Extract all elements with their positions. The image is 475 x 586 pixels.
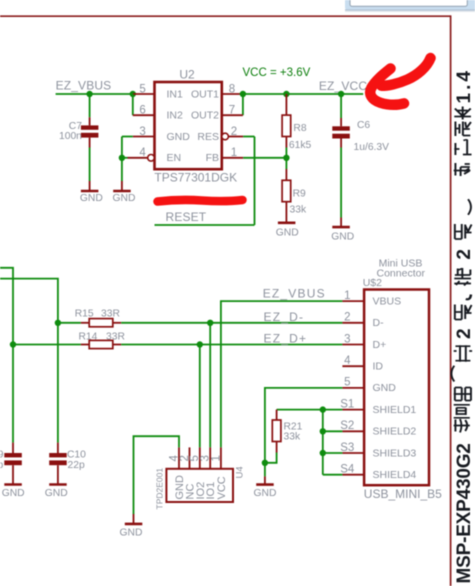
svg-text:S3: S3 bbox=[340, 442, 354, 454]
label C7 bbox=[69, 121, 82, 132]
label C6 bbox=[357, 120, 370, 131]
pin 3 stub bbox=[342, 344, 364, 346]
label 22p bbox=[68, 460, 85, 471]
label R15 33R bbox=[75, 308, 120, 319]
browser find-bar popup (top right) bbox=[345, 0, 475, 12]
wire IO1 riser bbox=[209, 323, 211, 448]
svg-text:OUT1: OUT1 bbox=[191, 88, 219, 100]
wire net-B entering left, lower bbox=[0, 279, 58, 323]
svg-text:GND: GND bbox=[113, 193, 136, 204]
wire EZ_VBUS rail to U4 VCC bbox=[221, 301, 343, 447]
node junction pin5 tap bbox=[130, 91, 136, 97]
pin S4 stub bbox=[342, 474, 364, 476]
pin number 5 bbox=[139, 83, 145, 95]
connector U$2 Mini USB body bbox=[364, 290, 429, 486]
svg-text:3: 3 bbox=[344, 333, 350, 345]
svg-text:GND: GND bbox=[167, 131, 191, 143]
pin 6 stub bbox=[133, 114, 155, 116]
pin number 7 bbox=[229, 105, 235, 117]
pin 3 IO1 stub bbox=[209, 447, 211, 468]
op-amp U2 body TPS77301DGK bbox=[155, 82, 222, 169]
node junction C7 tap bbox=[86, 91, 92, 97]
label VCC = +3.6V bbox=[243, 67, 311, 79]
wire EZ_D- rail bbox=[121, 322, 342, 324]
frame top border line bbox=[0, 15, 451, 17]
pin 2 stub bbox=[342, 322, 364, 324]
svg-text:33R: 33R bbox=[101, 308, 120, 319]
net label EZ_VBUS (left) bbox=[56, 78, 112, 92]
label R21 bbox=[284, 422, 303, 433]
pin S1 stub bbox=[342, 409, 364, 411]
wire FB to divider bbox=[243, 157, 286, 159]
pin number 3 (rotated) bbox=[200, 455, 212, 461]
label 1u/6.3V bbox=[354, 142, 390, 153]
label U4 (rotated) bbox=[235, 466, 246, 478]
svg-text:U$2: U$2 bbox=[363, 277, 382, 289]
svg-text:33k: 33k bbox=[284, 432, 301, 443]
wire RES right bbox=[243, 136, 254, 138]
node junction C6 top bbox=[338, 91, 344, 97]
ground below C9 bbox=[2, 485, 25, 500]
node junction S2 bbox=[320, 428, 326, 434]
svg-text:C9: C9 bbox=[0, 450, 4, 461]
net label EZ_VCC bbox=[319, 79, 367, 93]
svg-text:C6: C6 bbox=[357, 120, 370, 131]
） full-width paren, rotated: opens down bbox=[468, 199, 471, 215]
svg-text:GND: GND bbox=[45, 488, 68, 499]
resistor R14 bbox=[81, 340, 121, 348]
node junction R14 left bbox=[10, 341, 16, 347]
label TPD2E001 (rotated) bbox=[154, 468, 164, 510]
svg-text:USB_MINI_B5: USB_MINI_B5 bbox=[364, 487, 442, 501]
node junction S1 bbox=[320, 406, 326, 412]
svg-text:EZ_VBUS: EZ_VBUS bbox=[56, 78, 112, 92]
svg-text:ID: ID bbox=[373, 361, 384, 373]
张 bbox=[455, 224, 472, 239]
label USB_MINI_B5 bbox=[364, 487, 442, 501]
pin 8 stub bbox=[222, 93, 243, 95]
net label EZ_D- bbox=[264, 310, 305, 324]
pin 1 FB stub bbox=[222, 157, 243, 159]
svg-text:D-: D- bbox=[373, 317, 385, 329]
pin 1 VCC stub bbox=[220, 447, 222, 468]
pin 1 stub bbox=[342, 300, 364, 302]
仿 bbox=[454, 419, 470, 433]
node junction pin8/OUT bbox=[240, 91, 246, 97]
label 33k R21 bbox=[284, 432, 301, 443]
svg-text:GND: GND bbox=[373, 382, 397, 394]
pin 5 GND stub bbox=[342, 387, 364, 389]
resistor R21 bbox=[272, 410, 281, 453]
wire divider node to R9 bbox=[285, 158, 287, 169]
CJK glyphs drawn as synthetic strokes bbox=[451, 107, 472, 433]
wire USB GND net bbox=[265, 388, 343, 463]
net label EZ_D+ bbox=[264, 332, 308, 346]
wire C9 drop bbox=[12, 345, 14, 443]
resistor R15 bbox=[81, 319, 121, 327]
svg-text:D+: D+ bbox=[373, 339, 387, 351]
svg-text:S4: S4 bbox=[340, 464, 355, 476]
pin name VCC (rotated) bbox=[216, 476, 228, 499]
capacitor C9 bbox=[4, 443, 22, 485]
frame right border line bbox=[450, 15, 452, 586]
svg-text:GND: GND bbox=[331, 231, 354, 242]
真 bbox=[454, 405, 470, 418]
pin number 2 (rotated) bbox=[179, 455, 191, 461]
ground below C10 bbox=[45, 485, 68, 500]
svg-text:2: 2 bbox=[344, 312, 350, 324]
svg-text:R8: R8 bbox=[293, 123, 306, 134]
wire VCC rail bbox=[243, 93, 363, 95]
svg-text:TPD2E001: TPD2E001 bbox=[154, 468, 164, 510]
wire U4 GND pin to ground bbox=[134, 436, 180, 514]
pin names U2 left column bbox=[167, 88, 191, 164]
wire RESET horizontal bbox=[155, 224, 255, 226]
pin 5 IO2 stub bbox=[199, 447, 201, 468]
svg-text:GND: GND bbox=[120, 528, 143, 539]
svg-text:2: 2 bbox=[454, 249, 475, 260]
label 61k5 bbox=[289, 140, 312, 151]
pin 4 ID stub (unconnected) bbox=[342, 365, 364, 367]
net label RESET bbox=[166, 210, 207, 224]
svg-text:TPS77301DGK: TPS77301DGK bbox=[154, 171, 237, 185]
label Mini USB bbox=[379, 258, 423, 270]
svg-text:U2: U2 bbox=[179, 68, 195, 82]
pin 3 stub bbox=[133, 136, 155, 138]
本 bbox=[454, 107, 471, 120]
wire C7 to ground bbox=[89, 148, 91, 182]
修 bbox=[454, 163, 471, 176]
pin names U2 right column bbox=[191, 88, 219, 164]
pin number 6 bbox=[139, 105, 145, 117]
pin numbers USB connector bbox=[340, 290, 355, 476]
ground below C6 bbox=[331, 218, 354, 243]
svg-text:GND: GND bbox=[276, 228, 299, 239]
wire EN node to stub bbox=[122, 157, 128, 159]
node junction R8 top bbox=[283, 91, 289, 97]
pin number 4 (rotated) bbox=[168, 455, 180, 462]
pin number 1 bbox=[231, 147, 237, 159]
node junction FB divider bbox=[283, 155, 289, 161]
svg-text:1: 1 bbox=[344, 290, 350, 302]
label R8 bbox=[293, 123, 306, 134]
svg-text:GND: GND bbox=[80, 193, 103, 204]
svg-text:VCC: VCC bbox=[216, 476, 228, 499]
svg-text:61k5: 61k5 bbox=[289, 140, 312, 151]
wire pin8 down to pin7 bbox=[242, 94, 244, 115]
svg-text:SHIELD1: SHIELD1 bbox=[373, 404, 417, 416]
capacitor C6 bbox=[332, 94, 350, 148]
svg-text:RESET: RESET bbox=[166, 210, 207, 224]
svg-text:RES: RES bbox=[197, 131, 219, 143]
ground below U4 bbox=[120, 514, 143, 539]
svg-text:1: 1 bbox=[210, 455, 222, 461]
node junction R15 left bbox=[55, 320, 61, 326]
svg-text:IN2: IN2 bbox=[167, 110, 184, 122]
svg-text:R15: R15 bbox=[75, 308, 94, 319]
pin names USB connector bbox=[373, 295, 417, 481]
wire shield S3 bbox=[323, 452, 343, 454]
svg-text:Connector: Connector bbox=[377, 268, 426, 280]
svg-text:4: 4 bbox=[344, 355, 351, 367]
svg-text:VCC = +3.6V: VCC = +3.6V bbox=[243, 67, 311, 79]
pin name IO1 (rotated) bbox=[205, 482, 217, 500]
svg-text:C10: C10 bbox=[67, 450, 86, 461]
wire pin3 down to EN node bbox=[121, 137, 123, 158]
svg-text:FB: FB bbox=[206, 152, 219, 164]
pin number 3 bbox=[139, 126, 145, 138]
wire R14 left bbox=[13, 344, 81, 346]
wire shield S2 bbox=[323, 430, 343, 432]
pin 7 stub bbox=[222, 114, 243, 116]
svg-text:1u/6.3V: 1u/6.3V bbox=[354, 142, 390, 153]
pin number 8 bbox=[229, 83, 235, 95]
wire C7 upper lead bbox=[89, 94, 91, 117]
label R14 33R bbox=[79, 331, 125, 342]
node junction IO1/D- bbox=[207, 320, 213, 326]
svg-text:GND: GND bbox=[254, 488, 277, 499]
svg-text:SHIELD3: SHIELD3 bbox=[373, 447, 417, 459]
label 100n bbox=[59, 131, 82, 142]
svg-text:33k: 33k bbox=[290, 204, 307, 215]
wire R15 left bbox=[58, 322, 81, 324]
svg-text:U4: U4 bbox=[235, 466, 246, 478]
transistor-array U4 TPD2E001 body bbox=[166, 469, 233, 502]
capacitor C10 bbox=[49, 443, 66, 485]
wire EZ_D+ rail bbox=[121, 344, 342, 346]
共 bbox=[454, 345, 472, 362]
svg-text:EZ_VBUS: EZ_VBUS bbox=[263, 286, 326, 300]
label TPS77301DGK bbox=[154, 171, 237, 185]
resistor R8 bbox=[282, 94, 291, 148]
node junction S3 bbox=[320, 450, 326, 456]
svg-text:2: 2 bbox=[454, 328, 475, 339]
node junction IO2/D+ bbox=[197, 341, 203, 347]
pin name GND (rotated) bbox=[174, 475, 186, 500]
pin S2 stub bbox=[342, 430, 364, 432]
pin S3 stub bbox=[342, 452, 364, 454]
（ full-width paren, rotated: opens up bbox=[451, 366, 454, 382]
wire EN node down to ground bbox=[121, 158, 123, 181]
svg-text:EZ_VCC: EZ_VCC bbox=[319, 79, 367, 93]
订 bbox=[454, 140, 471, 156]
node junction GND/R21 bbox=[262, 460, 268, 466]
svg-text:22p: 22p bbox=[0, 460, 3, 471]
pin number 5 (rotated) bbox=[189, 455, 201, 461]
pin 2 NC stub bbox=[189, 447, 191, 468]
pin number 2 bbox=[231, 126, 237, 138]
wire EZ_VBUS horizontal bbox=[56, 93, 133, 95]
ground below C7 bbox=[80, 181, 103, 204]
label U$2 bbox=[363, 277, 382, 289]
版 bbox=[455, 122, 471, 137]
ground below USB GND bbox=[254, 463, 277, 499]
wire R8 bottom to FB node bbox=[285, 148, 287, 158]
resistor R9 bbox=[282, 169, 291, 222]
wire R21 bottom to GND node bbox=[265, 453, 277, 463]
张 bbox=[455, 305, 472, 320]
wire shield rail S1 bbox=[277, 409, 343, 411]
svg-text:R9: R9 bbox=[293, 188, 306, 199]
， full-width comma bbox=[466, 295, 471, 300]
label C9 (clipped at edge) bbox=[0, 450, 4, 461]
svg-text:1.4: 1.4 bbox=[454, 68, 475, 103]
pin 2 RES stub with inversion bubble bbox=[222, 133, 243, 140]
wire shield riser bbox=[322, 410, 324, 475]
wire C10 drop bbox=[57, 323, 59, 443]
label 22p (clipped at edge) bbox=[0, 460, 3, 471]
ground below EN bbox=[113, 181, 136, 204]
wire shield S4 bbox=[323, 474, 343, 476]
label Connector bbox=[377, 268, 426, 280]
svg-text:EZ_D+: EZ_D+ bbox=[264, 332, 308, 346]
wire net-A entering left, upper bbox=[0, 268, 13, 345]
svg-text:100n: 100n bbox=[59, 131, 82, 142]
svg-text:IN1: IN1 bbox=[167, 88, 184, 100]
node junction EN/GND bbox=[119, 155, 125, 161]
wire RES down bbox=[254, 137, 256, 226]
svg-text:22p: 22p bbox=[68, 460, 85, 471]
wire IO2 riser bbox=[199, 345, 201, 448]
svg-text:S2: S2 bbox=[340, 420, 354, 432]
svg-text:MSP-EXP430G2: MSP-EXP430G2 bbox=[454, 443, 475, 583]
net label EZ_VBUS (usb) bbox=[263, 286, 326, 300]
svg-text:EZ_D-: EZ_D- bbox=[264, 310, 305, 324]
svg-text:SHIELD4: SHIELD4 bbox=[373, 469, 417, 481]
pin 5 stub bbox=[133, 93, 155, 95]
pin name IO2 (rotated) bbox=[195, 482, 207, 500]
器 bbox=[454, 388, 471, 401]
ground below R9 bbox=[276, 223, 299, 239]
svg-text:EN: EN bbox=[167, 152, 182, 164]
label C10 bbox=[67, 450, 86, 461]
red marker underline annotation bbox=[158, 200, 243, 202]
wire C6 to ground bbox=[340, 148, 342, 218]
label U2 bbox=[179, 68, 195, 82]
svg-text:GND: GND bbox=[2, 488, 25, 499]
第 bbox=[454, 268, 471, 286]
red marker curl arrow annotation bbox=[370, 58, 430, 105]
pin number 4 bbox=[139, 147, 146, 159]
pin name NC (rotated) bbox=[185, 484, 197, 500]
pin 4 GND stub bbox=[178, 447, 180, 468]
vertical sheet title text: MSP-EXP430G2 (CJK) 1.4 bbox=[451, 68, 475, 583]
label R9 bbox=[293, 188, 306, 199]
svg-text:5: 5 bbox=[344, 377, 350, 389]
svg-text:SHIELD2: SHIELD2 bbox=[373, 426, 417, 438]
svg-text:S1: S1 bbox=[340, 398, 354, 410]
wire pin5 to pin6 bbox=[132, 94, 134, 115]
wire pin3 left bbox=[122, 136, 133, 138]
pin 4 EN stub with inversion bubble bbox=[128, 155, 155, 162]
svg-text:OUT2: OUT2 bbox=[191, 110, 219, 122]
capacitor C7 bbox=[81, 117, 99, 147]
label 33k bbox=[290, 204, 307, 215]
pin number 1 (rotated) bbox=[210, 455, 222, 461]
svg-text:VBUS: VBUS bbox=[373, 295, 402, 307]
